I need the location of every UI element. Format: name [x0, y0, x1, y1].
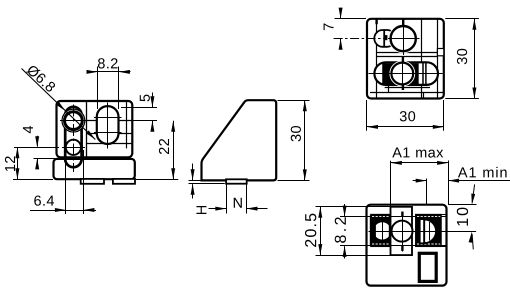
- front view: internal rib vertical line: [126, 102, 128, 149]
- dimension 30 top-bottom: right extension line: [443, 100, 445, 131]
- dimension 5: upper dim line: [152, 93, 154, 108]
- bottom view: D vertical centerline: [429, 222, 431, 241]
- top view: top slot cap flat-side tick: [385, 35, 388, 40]
- dimension 8.2 bottom: lower dim line: [344, 246, 346, 258]
- dimension 8.2: right extension line: [118, 67, 120, 110]
- dimension 30 side: bottom arrow: [303, 169, 307, 180]
- dimension 8.2 bottom: lower arrow: [343, 246, 347, 257]
- top view: D-bar left vertical: [422, 63, 424, 84]
- dimension 5: label: [140, 95, 150, 102]
- dimension 30 top-bottom: left arrow: [367, 125, 378, 129]
- top view: lower shoulder line 1: [385, 87, 430, 89]
- dimension N: right arrow: [247, 207, 258, 211]
- dimension 8.2: label: [98, 58, 118, 68]
- dimension 12: bottom extension line: [13, 179, 53, 181]
- dimension 30 top-right: dimension line: [474, 19, 476, 99]
- dimension 22: bottom extension line: [136, 179, 178, 181]
- front view: bottom flange bar outline: [54, 159, 135, 179]
- dimension A1 min: label: [458, 167, 507, 178]
- dimension A1 min: right line: [448, 180, 510, 182]
- bottom view: left square hatch seam bottom: [372, 243, 390, 245]
- dimension 4: lower dim line: [37, 159, 39, 169]
- dimension 30 top-right: label: [457, 49, 467, 64]
- dimension 10: top extension line: [448, 204, 477, 206]
- top view: right wall notch: [437, 49, 443, 56]
- dimension 20.5: top arrow: [318, 207, 322, 218]
- front view: lower hole horizontal centerline: [62, 147, 85, 149]
- top view: tick below cross slot: [402, 85, 404, 90]
- dimension 8.2 bottom: upper arrow: [343, 206, 347, 217]
- dimension 6.4: left arrow: [55, 208, 66, 212]
- dimension A1 min: left arrow: [416, 179, 427, 183]
- dimension H: label: [196, 206, 206, 214]
- front view: left tenon tab: [81, 179, 104, 184]
- dimension A1 max: right arrow: [437, 161, 448, 165]
- dimension 30 side: dimension line: [304, 100, 306, 180]
- dimension 5: upper arrow: [150, 96, 154, 107]
- dimension A1 max: label: [392, 147, 443, 157]
- dimension 30 top-bottom: right arrow: [433, 125, 444, 129]
- dimension 8.2: left extension line: [97, 67, 99, 110]
- top view: bottom seam vertical: [423, 92, 425, 98]
- front view: right slot upper arc centerline: [94, 117, 122, 119]
- bottom view: left hatched square: [371, 215, 392, 247]
- bottom view: central slot band: [391, 207, 413, 255]
- dimension 7: lower arrow: [339, 39, 343, 50]
- top view: lower shoulder line 2: [370, 92, 444, 94]
- bottom view: D half-disc: [424, 219, 436, 243]
- dimension 30 top-right: top arrow: [472, 19, 476, 30]
- dimension 4: upper dim line: [37, 136, 39, 147]
- dimension 6.4: left extension line: [65, 150, 67, 214]
- dimension 10: label: [457, 208, 468, 226]
- bottom view: left hole vertical centerline: [382, 222, 384, 241]
- dimension 7: upper arrow: [339, 8, 343, 19]
- dimension 4: lower arrow: [35, 158, 39, 169]
- leader dia 6.8: arrow at end: [86, 130, 95, 139]
- leader dia 6.8: arrow at circle: [56, 102, 65, 111]
- dimension 20.5: dimension line: [320, 207, 322, 255]
- front view: right slot obround 8.2 wide: [97, 106, 119, 144]
- front view: internal horizontal edge mid: [87, 133, 133, 135]
- top view: upper shoulder line 2: [377, 56, 438, 58]
- dimension 8.2: left arrow: [87, 70, 98, 74]
- front view: lower hole circle: [66, 140, 81, 155]
- dimension A1 min: mid extension line: [426, 179, 428, 205]
- dimension 6.4: label: [34, 196, 54, 206]
- top view: body outline: [367, 19, 444, 99]
- bottom view: central band tick bottom: [401, 246, 403, 251]
- dimension 10: lower dim line: [472, 234, 473, 250]
- top view: cross slot horizontal centerline: [369, 73, 443, 75]
- bottom view: bottom-right thick rectangle: [419, 253, 436, 281]
- bottom view: right square hatch seam bottom: [417, 243, 440, 245]
- bottom view: slot top edge line: [340, 216, 447, 218]
- front view: left column vertical centerline: [73, 105, 75, 173]
- top view: D-bar right vertical: [425, 63, 427, 84]
- side view: tenon tab: [226, 179, 247, 183]
- top view: counterbore circle halo: [391, 26, 416, 51]
- bottom view: right hatched square: [416, 215, 441, 247]
- front view: main body outline: [57, 101, 133, 157]
- dimension A1 max: left arrow: [391, 161, 402, 165]
- dimension 6.4: right arrow: [83, 208, 94, 212]
- dimension 12: bottom arrow: [15, 168, 19, 179]
- dimension 12: top arrow: [15, 147, 19, 158]
- bottom view: left hole circle: [374, 222, 391, 239]
- top view: counterbore circle tick above: [402, 19, 404, 26]
- bottom view: D-bar white band: [420, 219, 424, 243]
- dimension H: lower dim line: [192, 184, 194, 198]
- dimension N: left dim line: [209, 208, 227, 210]
- dimension 20.5: bottom arrow: [318, 244, 322, 255]
- dimension 30 top-right: bottom extension line: [445, 98, 479, 100]
- dimension 5: extension line top: [121, 107, 157, 109]
- front view: internal step vertical line: [86, 102, 88, 158]
- dimension 7: top extension line: [335, 18, 367, 20]
- front view: big hole horizontal centerline: [60, 120, 87, 122]
- bottom view: slot bottom edge line overdraw: [389, 245, 417, 247]
- bottom view: central band tick top: [401, 212, 403, 217]
- side view: body outline: [202, 100, 277, 180]
- top view: cross slot obround: [374, 62, 438, 85]
- top view: counterbore horizontal centerline: [388, 38, 420, 40]
- bottom view: central hole vertical centerline: [402, 212, 404, 252]
- dimension 22: label: [159, 139, 169, 154]
- front view: internal horizontal edge low: [87, 143, 133, 145]
- dimension 5: extension line bottom: [132, 120, 157, 122]
- dimension N: label: [234, 198, 242, 208]
- dimension 22: bottom arrow: [171, 168, 175, 179]
- bottom view: central band top line (20.5 extension): [316, 206, 413, 208]
- dimension 10: lower arrow: [469, 232, 473, 243]
- top view: cross slot black fill: [382, 63, 418, 84]
- front view: internal horizontal edge (5/22 reference): [87, 120, 133, 122]
- dimension H: lower arrow: [191, 184, 195, 195]
- dimension 30 top-right: top extension line: [445, 18, 479, 20]
- dimension 30 side: bottom extension line: [278, 180, 310, 182]
- dimension 30 top-bottom: dimension line: [367, 126, 444, 128]
- bottom view: left hole mask bar left: [370, 215, 376, 245]
- dimension H: upper dim line: [192, 164, 194, 181]
- dimension 4: extension line bottom: [34, 158, 57, 160]
- front view: hole circle dia 6.8 (thick): [65, 112, 83, 130]
- dimension 5: lower arrow: [150, 121, 154, 132]
- dimension N: left arrow: [215, 207, 226, 211]
- bottom view: central band bottom line (20.5 extension): [316, 255, 413, 257]
- dimension H: top extension line: [189, 180, 201, 182]
- bottom view: slot bottom edge line: [340, 245, 447, 247]
- dimension H: upper arrow: [191, 169, 195, 180]
- dimension 30 top-bottom: label: [400, 111, 415, 121]
- dimension 30 top-bottom: left extension line: [366, 100, 368, 131]
- dimension 30 side: label: [291, 126, 301, 141]
- top view: left face vertical line: [376, 19, 378, 99]
- top view: cross slot hole halo: [391, 63, 413, 85]
- dimension 4: upper arrow: [35, 136, 39, 147]
- dimension 22: dimension line: [173, 121, 175, 180]
- dimension 20.5: label: [305, 214, 316, 247]
- dimension H: bottom extension line: [189, 183, 225, 185]
- top view: right wall vertical line: [421, 19, 423, 99]
- dimension 6.4: dimension line: [30, 210, 96, 212]
- dimension 6.4: right extension line: [83, 150, 85, 214]
- dimension 30 top-right: bottom arrow: [472, 88, 476, 99]
- dimension 10: upper dim line: [472, 184, 474, 202]
- top view: cross slot hole circle: [391, 63, 413, 85]
- dimension N: right extension line: [246, 185, 248, 214]
- dimension A1 max: left extension line: [390, 161, 392, 208]
- dimension 8.2: right arrow: [119, 70, 130, 74]
- dimension N: right dim line: [247, 208, 268, 210]
- bottom view: square edge line top right: [416, 214, 447, 216]
- top view: counterbore circle: [391, 26, 416, 51]
- bottom view: central hole circle: [392, 221, 413, 242]
- front view: counterbore circle (thin): [62, 109, 85, 132]
- top view: counterbore vertical centerline: [403, 23, 405, 56]
- dimension 7: label: [324, 23, 334, 30]
- dimension A1 min: left approach line: [413, 180, 427, 182]
- top view: tick above cross slot: [402, 57, 404, 63]
- dimension 5: lower dim line: [152, 121, 154, 132]
- dimension 22: top arrow: [171, 121, 175, 132]
- dimension 8.2 bottom: upper dim line: [344, 204, 346, 216]
- bottom view: central band redraw: [391, 207, 413, 255]
- front view: right slot lower arc centerline: [94, 132, 122, 134]
- front view: right slot vertical centerline: [107, 103, 109, 149]
- bottom view: left square hatch seam top: [372, 215, 390, 217]
- dimension 12: label: [5, 156, 15, 171]
- bottom view: right square hatch seam top: [417, 215, 440, 217]
- top view: upper shoulder line 1: [377, 52, 444, 54]
- top view: right face vertical line: [437, 19, 439, 99]
- bottom view: left hole mask bar right: [389, 215, 392, 245]
- dimension 4: label: [23, 126, 33, 133]
- front view: right tenon tab: [113, 179, 135, 184]
- dimension A1 min: right arrow: [448, 179, 459, 183]
- leader dia 6.8: leader line: [22, 69, 96, 140]
- front view: left column slot obround (6.4 wide): [65, 107, 81, 167]
- dimension 8.2: dimension line: [87, 71, 131, 73]
- dimension 30 side: top extension line: [278, 100, 310, 102]
- top view: hole vertical centerline: [402, 63, 404, 84]
- dimension 7: lower dim line: [340, 39, 342, 49]
- top view: left face tick: [375, 19, 377, 24]
- dimension 8.2 bottom: label: [335, 217, 346, 243]
- bottom view: square edge line bottom right: [416, 246, 447, 248]
- dimension 10: upper arrow: [471, 194, 475, 205]
- bottom view: slot horizontal centerline: [369, 231, 477, 233]
- dimension A1 min: right extension line: [448, 161, 450, 205]
- dimension 7: upper dim line: [340, 9, 342, 19]
- dimension 4: extension line top (hole centerline): [14, 147, 59, 149]
- leader dia 6.8: label: [26, 64, 57, 93]
- dimension 30 side: top arrow: [303, 100, 307, 111]
- dimension 7: slot centerline (dash-dot): [334, 38, 387, 40]
- dimension A1 max: dimension line: [391, 162, 448, 164]
- top view: top slot cap flat side: [383, 30, 385, 47]
- bottom view: slot top edge line overdraw: [389, 216, 417, 218]
- dimension 12: dimension line: [17, 147, 19, 179]
- dimension N: left extension line: [226, 185, 228, 214]
- top view: top slot obround: [374, 30, 395, 47]
- bottom view: body outline: [367, 205, 447, 286]
- top view: lower shoulder tick: [388, 85, 390, 92]
